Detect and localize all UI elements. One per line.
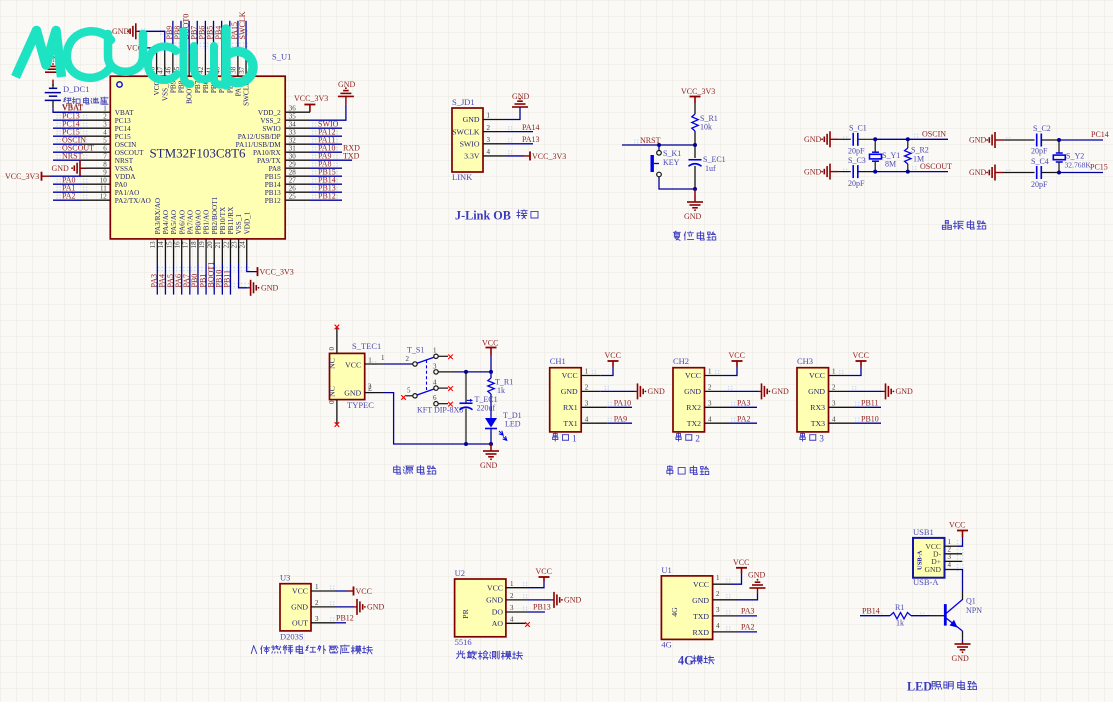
svg-text:2: 2 [585, 384, 589, 392]
svg-text:1: 1 [708, 368, 712, 376]
net label PB5 [206, 21, 215, 53]
svg-text:3: 3 [832, 400, 836, 408]
svg-text:PB15: PB15 [265, 173, 281, 181]
net label PA15 [230, 21, 239, 53]
crystal S_Y2 [1053, 140, 1065, 173]
svg-text:2: 2 [368, 383, 372, 391]
caption serial port 1 [553, 433, 577, 444]
net label PB13 [506, 603, 551, 612]
svg-text:GND: GND [367, 603, 385, 612]
mcu S_U1 left pin names [115, 109, 151, 205]
svg-text:PA2: PA2 [741, 623, 755, 632]
svg-text:NC: NC [328, 386, 337, 397]
ground U1 4G [713, 571, 766, 600]
value 5516 [455, 637, 472, 647]
svg-text:2: 2 [716, 590, 720, 598]
svg-text:1k: 1k [497, 386, 505, 395]
mcu S_U1 bottom pin names [154, 196, 251, 234]
svg-text:VCC: VCC [487, 583, 503, 592]
svg-text:PA13: PA13 [522, 135, 540, 144]
svg-text:PA12/USB/DP: PA12/USB/DP [238, 133, 281, 141]
net label PA14 [483, 123, 540, 132]
svg-text:0: 0 [328, 400, 336, 404]
designator T_EC1 [475, 395, 498, 404]
svg-text:1: 1 [103, 105, 107, 113]
svg-text:32: 32 [289, 137, 297, 145]
capacitor T_EC1 [460, 372, 474, 444]
wire S_TEC1 GND to ground rail [365, 383, 493, 447]
wire switch pin3 to VCC rail [438, 370, 493, 374]
designator U1 [661, 565, 671, 575]
svg-text:4: 4 [433, 379, 437, 387]
power VCC U3 [311, 587, 372, 596]
wire USB1 D+ stub [945, 560, 963, 562]
mcu S_U1 pin numbers right 36-25 [289, 105, 297, 201]
ground Q1 emitter [952, 642, 971, 664]
svg-text:18: 18 [190, 241, 198, 249]
power VCC T_S1 [482, 339, 498, 372]
net label VBAT [53, 103, 83, 112]
designator S_Y2 [1066, 152, 1084, 161]
svg-text:SWCLK: SWCLK [452, 127, 480, 136]
svg-text:4G: 4G [661, 640, 671, 650]
value NPN [966, 606, 982, 615]
svg-text:PC14: PC14 [115, 125, 131, 133]
value 32.768K [1065, 161, 1092, 170]
svg-text:PA9: PA9 [614, 414, 628, 423]
svg-text:12: 12 [100, 193, 108, 201]
svg-text:4: 4 [487, 148, 491, 156]
svg-text:37: 37 [238, 66, 246, 74]
svg-text:2: 2 [103, 113, 107, 121]
designator T_D1 [503, 411, 522, 420]
power VCC pin48 [127, 43, 157, 52]
designator S_C4 [1031, 157, 1049, 166]
svg-text:10: 10 [100, 177, 108, 185]
svg-text:PC13: PC13 [115, 117, 131, 125]
net label PB8 [173, 21, 182, 53]
module U1 pin numbers [716, 574, 720, 630]
value 4G [661, 640, 671, 650]
wire bundle U1 top pin stubs [157, 52, 246, 76]
net label PB3 [222, 21, 231, 53]
svg-text:SWIO: SWIO [262, 125, 280, 133]
ground S_C4 [969, 165, 1035, 181]
net label SWIO [310, 119, 342, 128]
net label PC14 [53, 119, 81, 128]
svg-text:GND: GND [338, 80, 356, 89]
svg-text:11: 11 [100, 185, 107, 193]
svg-text:PB13: PB13 [265, 189, 281, 197]
no-connect X marks T_S1 [401, 355, 453, 407]
svg-text:TXD: TXD [693, 612, 709, 621]
svg-text:3: 3 [708, 400, 712, 408]
resistor T_R1 [488, 372, 494, 416]
svg-text:1: 1 [433, 347, 437, 355]
svg-text:PB12: PB12 [318, 191, 336, 200]
designator D_DC1 [63, 84, 89, 94]
svg-text:PA11/USB/DM: PA11/USB/DM [236, 141, 282, 149]
caption serial port 2 [676, 433, 700, 444]
svg-text:PA2/TX/AO: PA2/TX/AO [115, 197, 151, 205]
svg-text:PA2: PA2 [62, 191, 76, 200]
wire battery to VBAT pin [53, 100, 81, 112]
svg-text:PC14: PC14 [1091, 130, 1109, 139]
svg-text:1: 1 [832, 368, 836, 376]
svg-text:4G: 4G [670, 607, 679, 617]
power VCC_3V3 pin36 VDD_2 [294, 94, 328, 112]
connector S_JD1 pin numbers [487, 112, 491, 156]
ground pin47 VSS_3 [112, 23, 165, 52]
caption serial circuit [667, 466, 709, 475]
svg-text:S_EC1: S_EC1 [703, 155, 726, 164]
svg-text:PB11: PB11 [861, 399, 879, 408]
svg-text:PB14: PB14 [862, 606, 880, 615]
value D203S [280, 632, 304, 642]
power VCC_3V3 S_JD1 pin4 [483, 151, 566, 160]
svg-text:Q1: Q1 [966, 597, 976, 606]
power VCC CH1 [581, 351, 621, 376]
ground VSSA pin8 [52, 160, 87, 176]
mcu S_U1 pin numbers bottom 13-24 [149, 241, 246, 249]
mcu S_U1 body [110, 76, 285, 239]
svg-text:4: 4 [716, 622, 720, 630]
svg-text:U2: U2 [455, 568, 465, 578]
svg-text:2: 2 [832, 384, 836, 392]
svg-text:GND: GND [748, 571, 766, 580]
svg-text:5: 5 [407, 386, 411, 394]
svg-text:VCC: VCC [733, 558, 749, 567]
crystal S_Y1 [870, 139, 882, 171]
wire OSCIN rail [858, 138, 948, 140]
svg-text:9: 9 [103, 169, 107, 177]
svg-text:22: 22 [222, 241, 230, 249]
svg-text:KEY: KEY [663, 158, 680, 167]
svg-text:38: 38 [230, 66, 238, 74]
svg-text:S_Y2: S_Y2 [1066, 152, 1084, 161]
svg-text:16: 16 [173, 241, 181, 249]
svg-text:VDD_2: VDD_2 [258, 109, 281, 117]
svg-text:PB11: PB11 [223, 270, 232, 288]
svg-text:NRST: NRST [62, 151, 83, 160]
net label PB10 [829, 414, 882, 423]
svg-text:7: 7 [103, 153, 107, 161]
svg-text:GND: GND [480, 461, 498, 470]
mcu S_U1 pin numbers top 48-37 [148, 66, 245, 74]
caption power circuit [394, 465, 436, 474]
power VCC_3V3 pin9 VDDA [5, 172, 81, 181]
value niukou battery holder [64, 97, 108, 104]
svg-text:VCC: VCC [853, 351, 869, 360]
svg-text:3.3V: 3.3V [464, 152, 480, 161]
svg-text:OSCOUT: OSCOUT [115, 149, 144, 157]
svg-text:PA0: PA0 [115, 181, 128, 189]
ground S_C3 [804, 164, 851, 180]
svg-text:VCC: VCC [605, 351, 621, 360]
module U2 pin names [461, 583, 503, 628]
svg-text:GND: GND [684, 212, 702, 221]
svg-text:2: 2 [406, 355, 410, 363]
svg-text:30: 30 [289, 153, 297, 161]
net label PA8 [310, 159, 342, 168]
designator S_R1 [700, 114, 718, 123]
mcu S_U1 top pin names [153, 80, 250, 106]
power VCC_3V3 pin24 VDD_1 [247, 264, 294, 276]
svg-text:OSCIN: OSCIN [115, 141, 137, 149]
svg-text:10k: 10k [700, 123, 712, 132]
net label BOOT0 [181, 14, 190, 53]
svg-text:GND: GND [804, 135, 822, 144]
svg-text:27: 27 [289, 177, 297, 185]
svg-text:1M: 1M [913, 155, 924, 164]
svg-text:PA5/AO: PA5/AO [170, 210, 178, 235]
capacitor S_EC1 [689, 145, 702, 189]
connector USB1 pin names [917, 542, 942, 574]
svg-text:6: 6 [103, 145, 107, 153]
svg-text:3: 3 [433, 362, 437, 370]
resistor S_R1 [692, 114, 698, 131]
net label PB14 [860, 606, 890, 615]
svg-text:4: 4 [832, 415, 836, 423]
net label PA11 [310, 135, 342, 144]
designator U2 [455, 568, 465, 578]
net label PA7 [182, 264, 191, 295]
value USB-A [913, 577, 939, 587]
net label PB12 [310, 191, 342, 200]
svg-text:VCC: VCC [693, 580, 709, 589]
svg-text:S_U1: S_U1 [272, 52, 291, 62]
svg-text:36: 36 [289, 105, 297, 113]
svg-text:2: 2 [487, 124, 491, 132]
value TYPEC [347, 400, 374, 410]
svg-text:GND: GND [344, 389, 361, 398]
power VCC U2 [506, 567, 552, 588]
designator U3 [280, 573, 290, 583]
net label OSCOUT [53, 143, 94, 152]
svg-text:D203S: D203S [280, 632, 304, 642]
designator S_U1 [272, 52, 291, 62]
designator S_JD1 [452, 97, 475, 107]
svg-text:GND: GND [804, 167, 822, 176]
connector CH3 pin numbers [832, 368, 836, 424]
svg-text:1uf: 1uf [705, 164, 716, 173]
svg-text:PB13: PB13 [533, 603, 551, 612]
svg-text:3: 3 [510, 604, 514, 612]
wire bundle U1 left pin stubs [81, 112, 110, 200]
svg-text:3: 3 [487, 136, 491, 144]
svg-text:4: 4 [510, 616, 514, 624]
svg-text:VCC: VCC [482, 339, 498, 348]
power VCC CH3 [829, 351, 869, 376]
connector CH3 body [797, 368, 829, 432]
svg-text:17: 17 [182, 241, 190, 249]
wire S_TEC1 shield top no-connect [335, 325, 340, 354]
svg-text:S_C3: S_C3 [848, 156, 866, 165]
wire bundle U1 bottom pin stubs [157, 239, 246, 264]
connector CH2 pin numbers [708, 368, 712, 424]
mcu S_U1 right pin names [236, 109, 282, 205]
svg-text:GND: GND [561, 387, 578, 396]
module U2 body [455, 579, 506, 637]
wire OSCOUT rail [858, 171, 948, 173]
net label PC15 [1090, 162, 1108, 171]
svg-text:CH1: CH1 [550, 356, 566, 366]
module U3 pin names [291, 587, 308, 628]
svg-text:13: 13 [149, 241, 157, 249]
designator CH3 [797, 356, 813, 366]
svg-text:CH2: CH2 [673, 356, 689, 366]
net label SWCLK [238, 11, 247, 52]
net label PA1 [53, 183, 81, 192]
net label PB12 U3 [311, 614, 354, 623]
svg-text:23: 23 [230, 241, 238, 249]
designator S_C2 [1033, 124, 1051, 133]
capacitor S_C4 [1037, 166, 1042, 179]
svg-text:GND: GND [692, 596, 709, 605]
value 220uf [477, 404, 496, 413]
svg-text:S_C1: S_C1 [849, 124, 867, 133]
svg-text:VCC: VCC [729, 351, 745, 360]
designator S_Y1 [882, 151, 900, 160]
net label PA6 [174, 264, 183, 295]
svg-text:PB12: PB12 [265, 197, 281, 205]
svg-text:PA6/AO: PA6/AO [178, 210, 186, 235]
svg-text:PC15: PC15 [115, 133, 131, 141]
net label OSCIN [53, 135, 86, 144]
svg-text:VBAT: VBAT [62, 103, 83, 112]
svg-text:PA8: PA8 [269, 165, 282, 173]
net label PB14 [310, 175, 342, 184]
net label OSCOUT [920, 162, 952, 171]
svg-text:U1: U1 [661, 565, 671, 575]
ground reset [684, 189, 703, 221]
svg-text:3: 3 [315, 615, 319, 623]
net label PB0 [190, 264, 199, 295]
connector S_JD1 pin names [452, 115, 480, 160]
svg-text:2: 2 [315, 599, 319, 607]
capacitor S_C3 [853, 165, 858, 178]
net label BOOT1 [206, 262, 215, 295]
transistor Q1 [945, 600, 962, 642]
svg-text:3: 3 [585, 400, 589, 408]
svg-text:8M: 8M [885, 160, 896, 169]
svg-text:NPN: NPN [966, 606, 982, 615]
svg-text:6: 6 [433, 394, 437, 402]
wire bundle U1 right pin stubs [285, 112, 310, 200]
svg-text:S_C4: S_C4 [1031, 157, 1049, 166]
value STM32F103C8T6 [149, 146, 246, 161]
svg-text:NRST: NRST [115, 157, 134, 165]
power VCC USB1 [945, 521, 969, 547]
svg-text:PB0/AO: PB0/AO [195, 210, 203, 235]
svg-text:LED: LED [907, 680, 932, 694]
wire U2 AO no-connect [506, 622, 530, 627]
svg-text:USB1: USB1 [913, 527, 934, 537]
svg-text:VCC: VCC [345, 361, 361, 370]
net label PA9 [310, 151, 360, 160]
net label PA5 [166, 264, 175, 295]
svg-text:OUT: OUT [292, 618, 308, 627]
wire S_TEC1 shield bottom no-connect [335, 400, 340, 427]
svg-text:3: 3 [819, 434, 824, 444]
net label PB4 [214, 21, 223, 53]
svg-text:AO: AO [492, 619, 504, 628]
net label PB13 [310, 183, 342, 192]
svg-text:8: 8 [103, 161, 107, 169]
svg-text:GND: GND [772, 387, 790, 396]
svg-text:PA10: PA10 [614, 399, 632, 408]
value KEY [663, 158, 680, 167]
svg-text:PB14: PB14 [265, 181, 281, 189]
wire S_R1 to NRST node [694, 131, 696, 145]
switch T_S1 [413, 354, 438, 406]
svg-text:LED: LED [505, 420, 521, 429]
svg-text:20pF: 20pF [848, 147, 865, 156]
svg-text:20: 20 [206, 241, 214, 249]
net label PB9 [165, 21, 174, 53]
svg-text:PA9/TX: PA9/TX [257, 157, 282, 165]
svg-text:0: 0 [328, 347, 336, 351]
svg-text:TX3: TX3 [811, 419, 825, 428]
value 1k T_R1 [497, 386, 505, 395]
designator S_EC1 [703, 155, 726, 164]
net label PA3 [150, 264, 159, 295]
svg-text:VCC_3V3: VCC_3V3 [681, 87, 715, 96]
net label PB1 [198, 264, 207, 295]
svg-text:VDDA: VDDA [115, 173, 137, 181]
svg-text:GND: GND [969, 168, 987, 177]
svg-text:220uf: 220uf [477, 404, 496, 413]
svg-text:KFT DIP-8X8: KFT DIP-8X8 [417, 406, 463, 415]
svg-text:D_DC1: D_DC1 [63, 84, 89, 94]
net label PA3 U1 [713, 607, 757, 616]
net label PC14 [1091, 130, 1109, 139]
ground CH3 [829, 383, 914, 399]
led T_D1 [485, 416, 507, 444]
designator CH2 [673, 356, 689, 366]
svg-text:VDD_1: VDD_1 [243, 211, 251, 234]
designator T_S1 [407, 346, 424, 355]
svg-text:GND: GND [925, 565, 942, 574]
ground S_JD1 pin1 [483, 92, 530, 120]
module U3 body [280, 584, 311, 631]
svg-text:PB10/TX: PB10/TX [219, 206, 227, 234]
svg-text:46: 46 [165, 66, 173, 74]
value 20pF S_C2 [1031, 147, 1048, 156]
designator CH1 [550, 356, 566, 366]
svg-text:PB11/RX: PB11/RX [227, 206, 235, 235]
connector S_TEC1 pin numbers [328, 347, 372, 405]
svg-text:1: 1 [381, 354, 385, 362]
battery D_DC1 [45, 88, 61, 100]
svg-text:4: 4 [708, 415, 712, 423]
net label PA0 [53, 175, 81, 184]
net label NRST [53, 151, 83, 160]
net label PC13 [53, 111, 81, 120]
ground CH1 [581, 383, 665, 399]
switch T_S1 pin numbers [406, 347, 438, 403]
caption crystal circuit [942, 220, 985, 229]
svg-text:TXD: TXD [343, 151, 360, 160]
svg-text:USB-A: USB-A [917, 550, 924, 570]
net label PB11 [223, 264, 232, 295]
svg-text:32.768K: 32.768K [1065, 161, 1092, 170]
svg-text:STM32F103C8T6: STM32F103C8T6 [149, 146, 246, 161]
svg-text:35: 35 [289, 113, 297, 121]
net label PA9 [581, 414, 632, 423]
svg-text:2: 2 [695, 434, 700, 444]
svg-text:33: 33 [289, 129, 297, 137]
